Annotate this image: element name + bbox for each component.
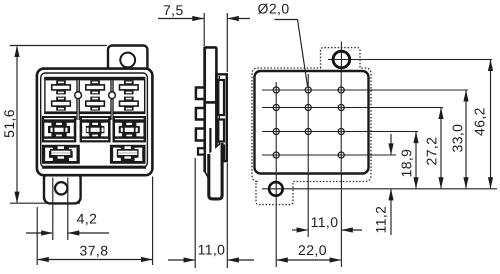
dim 11.0 side extensions [194, 158, 196, 268]
dim 37.8 extension lines [36, 207, 38, 265]
side profile: cavity rect middle [218, 120, 224, 142]
hole r4c3 [338, 152, 344, 158]
divider 2 [111, 80, 114, 120]
svg-text:51,6: 51,6 [1, 109, 17, 138]
arrow 27.2 up [438, 108, 443, 120]
46.2 top reference line [328, 59, 492, 61]
pin holes grid [273, 87, 344, 158]
arrow 4.2 left [68, 230, 80, 235]
junction circle divider2 [109, 92, 116, 99]
side profile: cavity rect upper [218, 80, 224, 115]
terminal grid rows 1-2 block [44, 77, 145, 120]
dim 7.5 line [158, 18, 204, 20]
arrow 7.5 right [192, 16, 204, 21]
hole r3c2 [305, 128, 311, 134]
arrow 11.0 side right [184, 257, 196, 262]
cell r4c3 [110, 145, 146, 164]
terminal r2c3 [120, 97, 139, 111]
arrow 18.9 down [413, 177, 418, 189]
hole r2c1 [273, 104, 279, 110]
divider 1 [78, 80, 79, 120]
svg-text:7,5: 7,5 [163, 2, 184, 18]
side profile: channel wall segment [209, 128, 211, 153]
arrow 11.0 bottom right [297, 227, 309, 232]
dim 27.2 line [440, 108, 442, 188]
dim 51.6 line [16, 47, 18, 203]
grid bottom thick line [42, 166, 146, 169]
svg-text:4,2: 4,2 [77, 210, 98, 226]
svg-text:37,8: 37,8 [80, 242, 109, 258]
cell 1-2 col3 [114, 80, 144, 111]
grid column lines inside body (redraw over body fill) [275, 82, 277, 172]
arrow 37.8 left [37, 257, 49, 262]
grid row line 3 [262, 131, 418, 133]
bottom mounting plate edge-on [209, 143, 222, 199]
svg-text:22,0: 22,0 [298, 242, 327, 258]
arrow 46.2 up [488, 60, 493, 72]
side profile: bottom shelf [216, 160, 228, 162]
grid row line 1 [262, 89, 468, 91]
dim 7.5 extensions [203, 13, 205, 46]
svg-text:11,0: 11,0 [311, 214, 339, 230]
terminal r2c1 [52, 97, 71, 111]
dim 18.9 line [415, 132, 417, 188]
top tab hole [333, 51, 350, 68]
dim 46.2 line [490, 60, 492, 188]
side profile: shoulder line [215, 73, 228, 75]
arrow 37.8 right [141, 257, 153, 262]
cell 1-2 col1 [46, 80, 77, 111]
dim 4.2 line [26, 232, 52, 234]
bottom tab hole [55, 182, 67, 194]
grid column line 1 [275, 82, 277, 267]
grid column line 3 [340, 42, 342, 268]
side profile: tab right wall continuation [215, 75, 218, 161]
bottom tab hole [269, 182, 283, 196]
svg-text:Ø2,0: Ø2,0 [258, 1, 290, 17]
arrow 51.6 up [14, 46, 19, 58]
arrow 4.2 right [41, 230, 53, 235]
side profile: slot bottom bar [204, 101, 218, 104]
arrow 46.2 down [488, 177, 493, 189]
dim 22.0 line [277, 259, 341, 261]
svg-text:11,2: 11,2 [373, 206, 389, 234]
socket body outline [37, 69, 152, 176]
blade bump 4 [198, 148, 205, 154]
arrow 22.0 right [330, 257, 342, 262]
side profile: cavity rect lower [218, 146, 224, 160]
cell 1-2 col2 [80, 80, 111, 111]
arrow 7.5 left [227, 16, 239, 21]
cell r4c1 [42, 145, 80, 164]
grid row line 2 [262, 107, 443, 109]
hole r1c2 [305, 87, 311, 93]
grid row line 4 [262, 154, 396, 156]
blade bump 2 [196, 108, 205, 120]
arrow 11.0 bottom left [341, 227, 353, 232]
arrow 11.0 side left [227, 257, 239, 262]
side profile: inner doubling line [218, 76, 220, 159]
blade bump 1 [196, 88, 205, 100]
arrow 27.2 down [438, 177, 443, 189]
hole r1c1 [273, 87, 279, 93]
arrow 11.2 down [388, 143, 393, 155]
arrow 22.0 left [276, 257, 288, 262]
cell r3c2 [80, 116, 111, 142]
top tab hole [120, 53, 135, 68]
arrow 11.2 up [388, 189, 393, 201]
top mounting tab [108, 46, 147, 74]
hole r3c1 [273, 128, 279, 134]
terminal r1c2 [86, 80, 105, 94]
dim 51.6 extension top [10, 45, 107, 47]
terminal r1c1 [52, 80, 71, 94]
arrow 33.0 down [463, 177, 468, 189]
hole r2c2 [305, 104, 311, 110]
dim 33.0 line [465, 91, 467, 189]
dim 11.0 bottom line segments [292, 229, 308, 231]
blade terminal crosses rows 1-2 [52, 80, 138, 110]
cell r3c1 [42, 116, 77, 142]
svg-text:46,2: 46,2 [471, 107, 487, 136]
grid column line 2 [307, 74, 309, 237]
plate diagonal [205, 172, 209, 180]
hole r2c3 [338, 104, 344, 110]
dashed silhouette [252, 48, 371, 205]
dim 51.6 extension bottom [10, 202, 80, 204]
dim 4.2 extension lines [52, 178, 54, 241]
leader Ø2.0 [275, 19, 298, 21]
dim 11.0 side line [168, 259, 195, 261]
terminal r1c3 [120, 80, 139, 94]
junction circle divider1 [75, 92, 82, 99]
side profile: left wall [203, 47, 206, 173]
terminal r2c2 [86, 97, 105, 111]
hole r1c3 [338, 87, 344, 93]
svg-text:33,0: 33,0 [449, 124, 465, 153]
baseline through bottom hole [262, 188, 497, 190]
blade bump 3 [196, 129, 205, 141]
dim 37.8 line [38, 259, 152, 261]
svg-text:18,9: 18,9 [398, 149, 414, 178]
hole r4c1 [273, 152, 279, 158]
cell r3c3 [113, 116, 147, 142]
arrow 33.0 up [463, 90, 468, 102]
hole r3c3 [338, 128, 344, 134]
solid body [255, 71, 369, 174]
socket body inner wall [41, 73, 148, 167]
side profile: right outer wall [226, 74, 228, 162]
arrow 51.6 down [14, 192, 19, 204]
terminal rows 3-4 (bracket cells) [42, 116, 146, 167]
svg-text:11,0: 11,0 [198, 241, 226, 257]
side profile: top tab slot [205, 47, 217, 101]
bottom mounting tab [44, 172, 81, 203]
arrow 18.9 up [413, 132, 418, 144]
dim 11.2 line segments [390, 134, 392, 155]
svg-text:27,2: 27,2 [423, 137, 439, 166]
